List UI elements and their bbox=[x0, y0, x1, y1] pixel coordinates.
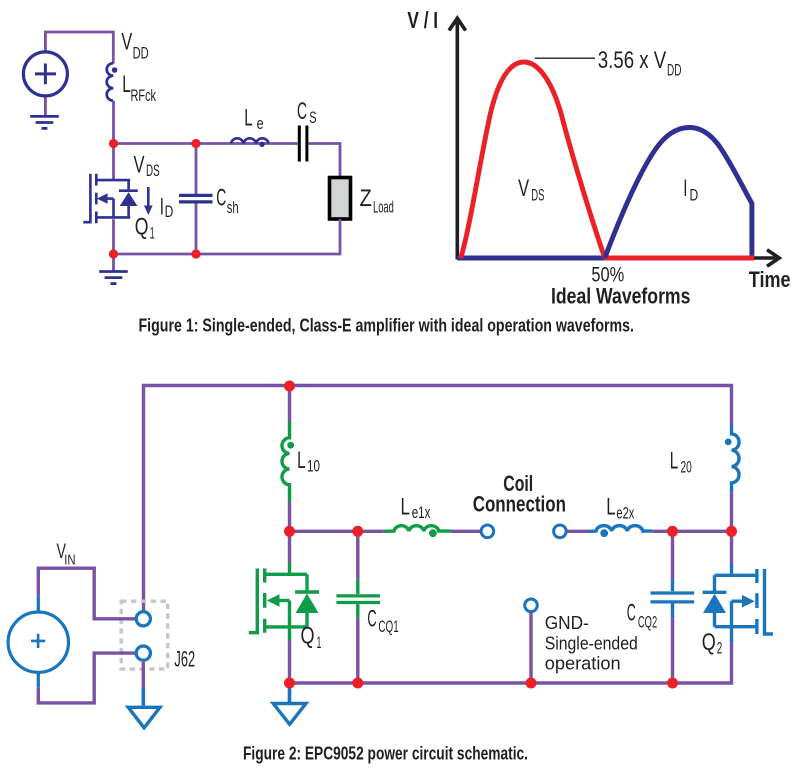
Q2 substrate arrowhead bbox=[742, 595, 755, 608]
Q1 body-diode triangle bbox=[296, 594, 319, 614]
svg-text:L: L bbox=[401, 493, 410, 520]
coil connection terminal 1 bbox=[481, 525, 494, 538]
node dot bottom rail Q1 bbox=[284, 678, 295, 689]
svg-text:IN: IN bbox=[64, 552, 75, 568]
svg-text:S: S bbox=[309, 109, 316, 127]
inductor Le1x bbox=[384, 526, 451, 532]
coil connection terminal 2 bbox=[554, 525, 567, 538]
svg-text:1: 1 bbox=[150, 224, 155, 242]
ground (under Q1) bbox=[99, 272, 128, 284]
svg-text:GND-: GND- bbox=[545, 612, 589, 633]
wire Cs to Z_Load bbox=[308, 144, 340, 178]
node dot (Csh bottom) bbox=[191, 249, 200, 258]
svg-text:e: e bbox=[257, 115, 264, 133]
wire VIN bottom loop bbox=[38, 653, 135, 703]
svg-text:C: C bbox=[297, 98, 307, 125]
Q2 body-diode triangle bbox=[703, 594, 726, 613]
wire L_RFck to drain node bbox=[112, 101, 115, 180]
svg-text:DS: DS bbox=[531, 186, 544, 204]
svg-text:L: L bbox=[670, 448, 679, 475]
svg-text:CQ2: CQ2 bbox=[638, 613, 657, 631]
wire C_CQ2 branch bbox=[671, 531, 674, 579]
L_RFck polarity dot bbox=[112, 67, 118, 73]
L20 polarity dot bbox=[725, 439, 732, 446]
svg-text:sh: sh bbox=[227, 199, 239, 217]
inductor L_RFck bbox=[107, 63, 114, 100]
label Q1 (fig2) bbox=[301, 623, 322, 653]
wire VDD-source top loop bbox=[45, 32, 113, 64]
wire ground stub bbox=[112, 254, 115, 271]
svg-text:Q: Q bbox=[135, 214, 149, 241]
wire VIN top loop bbox=[38, 568, 135, 619]
label Le bbox=[244, 104, 263, 133]
svg-text:C: C bbox=[367, 605, 376, 632]
label CCQ2 bbox=[627, 599, 658, 631]
wire GND stub bbox=[529, 611, 532, 683]
voltage source VIN stubs bbox=[37, 596, 40, 688]
svg-text:V: V bbox=[121, 28, 132, 55]
label VDD bbox=[121, 28, 148, 62]
baseline red segment (VDS=0) bbox=[604, 256, 754, 261]
baseline blue segment (ID=0) bbox=[457, 256, 606, 261]
wire node to Le1x branch bbox=[290, 530, 384, 533]
inductor Le bbox=[231, 138, 269, 143]
capacitor C_CQ1 plates bbox=[336, 596, 380, 603]
label L_RFck bbox=[122, 71, 156, 105]
svg-text:I: I bbox=[160, 194, 164, 221]
capacitor Cs plates bbox=[299, 126, 307, 162]
svg-text:10: 10 bbox=[307, 458, 320, 476]
svg-text:1: 1 bbox=[317, 634, 322, 652]
wire J62 pin2 to ground bbox=[142, 662, 145, 688]
inductor Le2x bbox=[589, 526, 652, 532]
svg-text:DD: DD bbox=[133, 44, 149, 63]
svg-text:C: C bbox=[627, 599, 636, 626]
ground (under source) bbox=[30, 116, 59, 128]
ground triangle (J62) bbox=[128, 707, 160, 728]
label Cs bbox=[297, 98, 317, 127]
svg-text:Q: Q bbox=[301, 623, 315, 650]
wire Le1x to coil terminal bbox=[451, 530, 481, 533]
wire L10 bottom to node bbox=[288, 502, 291, 563]
svg-text:Q: Q bbox=[702, 629, 716, 656]
svg-text:Z: Z bbox=[360, 185, 372, 212]
label L20 bbox=[670, 448, 692, 477]
wire Le2x to right node bbox=[652, 530, 731, 533]
inductor L10 bbox=[282, 422, 290, 502]
svg-text:C: C bbox=[216, 184, 226, 211]
svg-text:DS: DS bbox=[146, 162, 160, 180]
peak callout line bbox=[535, 57, 595, 59]
node dot (source node) bbox=[109, 249, 118, 258]
node dot L10-Q1 bbox=[284, 526, 295, 537]
svg-text:CQ1: CQ1 bbox=[378, 618, 398, 636]
transistor Q1 (green eGaN FET) bbox=[288, 563, 291, 575]
svg-text:Load: Load bbox=[373, 199, 394, 217]
svg-text:L: L bbox=[297, 447, 306, 474]
ground stub (fig2 left) bbox=[288, 683, 292, 702]
svg-text:Single-ended: Single-ended bbox=[545, 633, 638, 654]
resistor Z_Load bbox=[330, 178, 351, 220]
label ID bbox=[160, 194, 174, 222]
wire C_sh branch bbox=[195, 144, 198, 255]
svg-text:DD: DD bbox=[667, 60, 682, 79]
label Le2x bbox=[606, 494, 635, 523]
wire Q1 source to bottom rail bbox=[112, 219, 115, 254]
Le1x polarity dot bbox=[429, 529, 437, 537]
wire source bottom stub bbox=[44, 96, 47, 116]
x axis arrowhead bbox=[767, 250, 779, 267]
wire Q1 source bbox=[288, 627, 291, 641]
y axis bbox=[455, 22, 459, 260]
wire top rail node A to Cs bbox=[114, 142, 298, 145]
node dot rail-L10 bbox=[284, 381, 295, 392]
svg-text:Connection: Connection bbox=[473, 491, 566, 516]
capacitor C_CQ2 plates bbox=[651, 593, 695, 602]
svg-text:L: L bbox=[606, 494, 615, 521]
node dot (Csh top) bbox=[191, 139, 200, 148]
wire terminal2 to Le2x bbox=[567, 530, 590, 533]
svg-text:20: 20 bbox=[681, 459, 692, 477]
svg-text:Ideal Waveforms: Ideal Waveforms bbox=[551, 284, 690, 309]
wire L20 to node bbox=[730, 492, 733, 564]
J62 pin 1 bbox=[136, 612, 150, 626]
voltage source V1 circle bbox=[23, 52, 67, 96]
curve ID (blue) bbox=[605, 128, 752, 259]
svg-text:I: I bbox=[683, 175, 687, 202]
label VDS bbox=[134, 151, 160, 180]
svg-text:V: V bbox=[518, 175, 529, 202]
label ZLoad bbox=[360, 185, 394, 217]
svg-text:3.56 x V: 3.56 x V bbox=[598, 47, 666, 74]
wire Z_Load to bottom rail bbox=[114, 219, 341, 254]
GND terminal circle bbox=[525, 599, 538, 612]
svg-text:J62: J62 bbox=[174, 647, 195, 672]
label Q1 bbox=[135, 214, 155, 243]
VIN plus bbox=[31, 634, 45, 648]
wire L10 top bbox=[288, 386, 291, 423]
label Le1x bbox=[401, 493, 431, 522]
svg-text:RFck: RFck bbox=[131, 86, 157, 105]
L10 polarity dot bbox=[287, 442, 294, 449]
label GND single-ended bbox=[545, 612, 638, 674]
svg-text:2: 2 bbox=[717, 640, 723, 658]
connector J62 dashed box bbox=[121, 601, 168, 669]
label 3.56 x VDD bbox=[598, 47, 682, 79]
Q1 substrate arrowhead bbox=[97, 193, 108, 203]
J62 pin 2 bbox=[136, 646, 150, 660]
curve VDS (red) bbox=[461, 62, 605, 258]
Q1 body-diode triangle bbox=[120, 192, 138, 206]
label VDS (red) bbox=[518, 175, 544, 204]
wire C_CQ1 bottom bbox=[356, 604, 359, 618]
svg-text:V / I: V / I bbox=[407, 7, 438, 33]
svg-text:Time: Time bbox=[749, 267, 791, 292]
I_D current arrow bbox=[147, 187, 150, 208]
node dot L20-Q2 bbox=[726, 526, 737, 537]
wire bottom rail bbox=[290, 643, 732, 683]
capacitor C_sh plates bbox=[179, 195, 213, 202]
transistor Q2 (blue eGaN FET, mirrored) bbox=[730, 564, 733, 575]
transistor Q1 (fig1 MOSFET) bbox=[83, 174, 138, 224]
wire C_CQ1 branch top bbox=[356, 531, 359, 579]
Le2x polarity dot bbox=[600, 529, 608, 537]
label L10 bbox=[297, 447, 320, 475]
svg-text:e1x: e1x bbox=[412, 504, 431, 522]
label ID (blue) bbox=[683, 175, 698, 204]
svg-text:L: L bbox=[244, 104, 253, 131]
label VIN bbox=[57, 540, 76, 569]
voltage source plus bbox=[35, 64, 56, 85]
node dot CCQ2 top bbox=[667, 526, 678, 537]
x axis arrow segment bbox=[753, 256, 776, 260]
inductor L20 bbox=[732, 425, 740, 492]
node dot bottom rail CCQ2 bbox=[667, 678, 678, 689]
svg-text:D: D bbox=[690, 186, 699, 204]
ground triangle (fig2) bbox=[273, 704, 306, 725]
label Csh bbox=[216, 184, 238, 217]
Le polarity dot bbox=[259, 142, 264, 147]
svg-text:Figure 2: EPC9052 power circui: Figure 2: EPC9052 power circuit schemati… bbox=[243, 743, 528, 764]
node dot (drain node) bbox=[109, 139, 118, 148]
svg-text:e2x: e2x bbox=[616, 504, 634, 522]
voltage source VIN circle bbox=[8, 612, 68, 672]
label Q2 bbox=[702, 629, 723, 658]
svg-text:operation: operation bbox=[545, 653, 621, 674]
node dot bottom rail GND bbox=[526, 678, 537, 689]
wire Q2 source bbox=[730, 627, 733, 643]
svg-text:Figure 1: Single-ended, Class-: Figure 1: Single-ended, Class-E amplifie… bbox=[139, 315, 635, 336]
y axis arrowhead bbox=[449, 18, 466, 30]
label CCQ1 bbox=[367, 605, 398, 636]
svg-text:V: V bbox=[134, 151, 145, 178]
wire C_CQ2 bottom bbox=[671, 604, 674, 619]
label Coil Connection bbox=[473, 471, 566, 517]
node dot CCQ1 top bbox=[352, 526, 363, 537]
svg-text:D: D bbox=[165, 203, 174, 221]
node dot bottom rail CCQ1 bbox=[352, 678, 363, 689]
Q1 substrate arrowhead bbox=[267, 594, 280, 607]
wire top rail bbox=[144, 386, 732, 611]
